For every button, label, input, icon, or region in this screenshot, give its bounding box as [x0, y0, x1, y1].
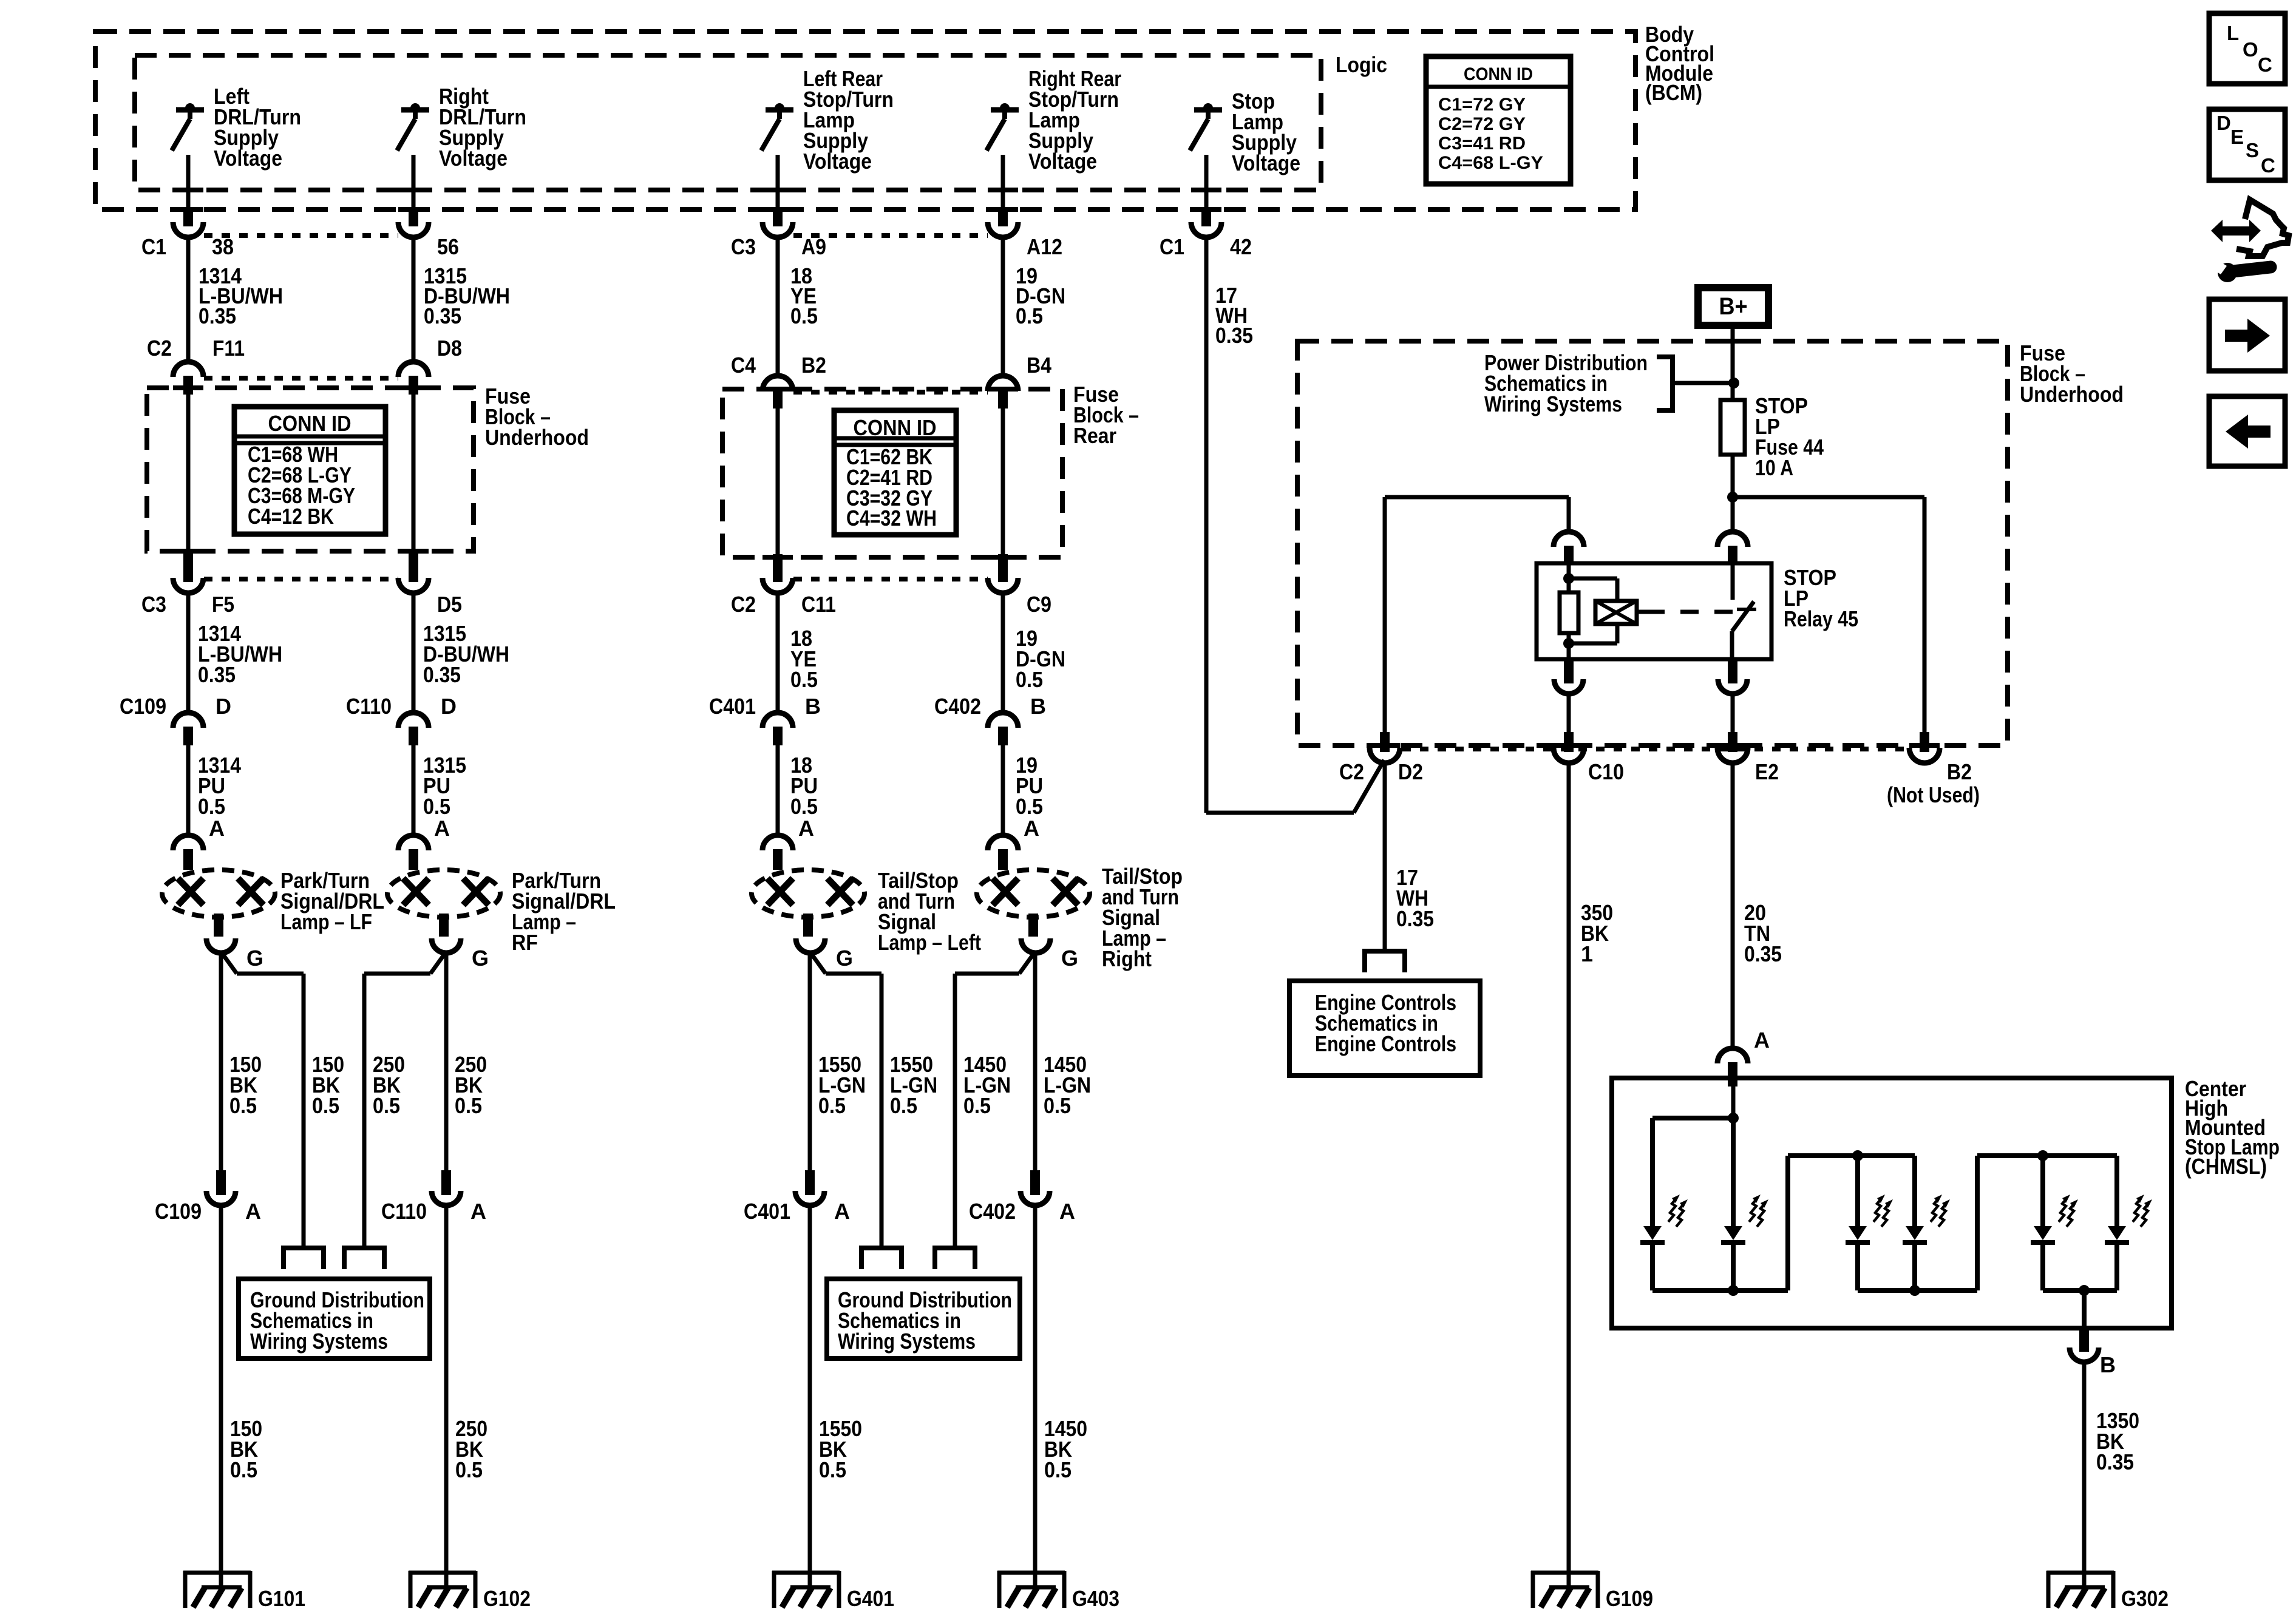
svg-text:Voltage: Voltage	[803, 149, 872, 174]
svg-text:C110: C110	[381, 1199, 427, 1224]
wire 19 D-GN 0.5 (lower)	[1001, 593, 1005, 714]
wire connector row dotted	[1402, 747, 1908, 751]
module box Fuse Block - Underhood (left)	[147, 388, 474, 551]
svg-text:0.35: 0.35	[1396, 906, 1434, 931]
off-page bracket ground distribution	[935, 1248, 975, 1269]
svg-text:C2: C2	[1339, 759, 1364, 784]
svg-text:D: D	[216, 694, 231, 719]
svg-text:A9: A9	[801, 234, 826, 259]
svg-text:(Not Used): (Not Used)	[1887, 782, 1980, 807]
svg-text:C109: C109	[155, 1199, 202, 1224]
svg-text:Engine Controls: Engine Controls	[1315, 1031, 1456, 1056]
wire lamp ground leg straight	[1033, 952, 1038, 1171]
wire 1314 L-BU/WH 0.35 (lower)	[186, 593, 191, 714]
LED D4 branch	[1912, 1156, 1917, 1227]
connector C109 pin D	[173, 713, 203, 728]
svg-text:0.5: 0.5	[423, 794, 450, 819]
svg-text:A: A	[1754, 1028, 1770, 1053]
relay pin bottom right	[1728, 659, 1737, 683]
wire through fuse block right	[412, 393, 416, 552]
svg-text:B2: B2	[1947, 759, 1972, 784]
svg-text:B+: B+	[1719, 293, 1748, 320]
wire connector row2 dotted	[204, 376, 398, 381]
svg-text:G: G	[836, 946, 853, 971]
svg-text:G102: G102	[483, 1586, 531, 1611]
svg-text:C4=12 BK: C4=12 BK	[248, 504, 334, 529]
wire switch drop	[776, 155, 780, 209]
wire junction to D2 branch	[1385, 495, 1569, 500]
module box Fuse Block - Underhood (right)	[1297, 341, 2008, 745]
connector C4 pin B4	[988, 376, 1018, 391]
svg-text:0.5: 0.5	[229, 1093, 257, 1118]
fuse STOP LP Fuse 44 10 A	[1720, 400, 1745, 455]
wire 19 PU 0.5	[1001, 745, 1005, 836]
svg-text:C10: C10	[1588, 759, 1624, 784]
connector C1 pin 42	[1201, 209, 1211, 226]
svg-text:0.5: 0.5	[230, 1457, 257, 1482]
svg-text:0.35: 0.35	[423, 662, 461, 687]
svg-text:CONN ID: CONN ID	[854, 415, 937, 440]
connector C3 pin A9	[773, 209, 783, 226]
svg-text:Voltage: Voltage	[1232, 151, 1300, 175]
wire 1315 PU 0.5	[412, 745, 416, 836]
svg-text:C1=72 GY: C1=72 GY	[1438, 95, 1526, 115]
wire 1314 PU 0.5	[186, 745, 191, 836]
svg-text:Right: Right	[1102, 946, 1152, 971]
ground G109	[1531, 1571, 1598, 1575]
svg-text:0.5: 0.5	[790, 303, 818, 328]
table CONN ID (BCM)	[1426, 56, 1571, 184]
connector C2 pin C11	[773, 554, 783, 582]
svg-text:Wiring Systems: Wiring Systems	[838, 1329, 976, 1354]
svg-text:C109: C109	[120, 694, 166, 719]
svg-text:Wiring Systems: Wiring Systems	[1484, 392, 1622, 416]
svg-text:A: A	[209, 816, 225, 841]
table CONN ID (Fuse Block Underhood)	[234, 407, 385, 534]
svg-text:C2=72 GY: C2=72 GY	[1438, 114, 1526, 134]
connector pin C10	[1564, 732, 1574, 752]
connector C1 pin 56	[409, 209, 418, 226]
svg-text:0.5: 0.5	[1044, 1457, 1072, 1482]
svg-text:0.35: 0.35	[424, 303, 461, 328]
svg-text:Voltage: Voltage	[214, 146, 282, 171]
ground G401	[772, 1571, 840, 1575]
svg-text:A12: A12	[1027, 234, 1062, 259]
wire to ground	[1033, 1205, 1038, 1587]
wire 18 YE 0.5 (lower)	[776, 593, 780, 714]
svg-text:E: E	[2230, 126, 2244, 148]
wire junction to B2 branch	[1733, 495, 1924, 500]
ground G102	[409, 1571, 476, 1575]
svg-text:0.5: 0.5	[373, 1093, 400, 1118]
switch S3 (Left Rear Stop/Turn supply)	[766, 107, 793, 113]
wire 350 BK 1	[1567, 762, 1571, 1587]
wire lamp ground leg to ground distribution	[430, 952, 446, 974]
switch S1 (Left supply)	[176, 107, 204, 113]
power feed B+	[1698, 288, 1768, 325]
svg-text:0.5: 0.5	[818, 1093, 846, 1118]
wire bus 2	[1858, 1288, 1977, 1293]
reference box Ground Distribution (middle)	[827, 1279, 1020, 1358]
svg-text:10 A: 10 A	[1755, 455, 1793, 480]
wire switch drop	[1204, 155, 1209, 209]
svg-text:C9: C9	[1027, 592, 1051, 617]
svg-text:Voltage: Voltage	[1028, 149, 1097, 174]
off-page bracket engine controls	[1365, 951, 1405, 972]
svg-text:0.5: 0.5	[198, 794, 225, 819]
svg-text:0.5: 0.5	[455, 1093, 482, 1118]
icon arrow left	[2209, 396, 2285, 466]
svg-text:0.5: 0.5	[1016, 794, 1043, 819]
relay switch contact	[1731, 563, 1735, 600]
svg-text:C401: C401	[709, 694, 756, 719]
wire 17 WH 0.35 stop lamp supply	[1204, 237, 1209, 813]
svg-text:0.5: 0.5	[455, 1457, 483, 1482]
LED D1 branch	[1650, 1118, 1655, 1227]
connector C110 pin D	[398, 713, 429, 728]
LED D2 branch	[1731, 1118, 1736, 1227]
switch S4 (Right Rear Stop/Turn supply)	[991, 107, 1019, 113]
svg-text:B: B	[1030, 694, 1046, 719]
svg-text:C1: C1	[1160, 234, 1184, 259]
svg-text:Voltage: Voltage	[439, 146, 508, 171]
wire lamp ground leg to ground distribution	[1019, 952, 1035, 974]
svg-text:D: D	[2216, 112, 2231, 134]
module box Fuse Block - Rear	[722, 389, 1062, 557]
lamp Park/Turn Signal/DRL Lamp - RF	[387, 870, 500, 917]
svg-text:0.5: 0.5	[963, 1093, 991, 1118]
lamp Tail/Stop and Turn Signal Lamp - Left	[752, 870, 864, 917]
wire bus 3	[2043, 1288, 2117, 1293]
wire to ground	[444, 1205, 449, 1587]
svg-text:C11: C11	[801, 592, 836, 617]
connector C2 pin F11	[173, 362, 203, 377]
wire lamp ground leg straight	[808, 952, 812, 1171]
svg-text:B: B	[2100, 1352, 2116, 1377]
wire 1350 BK 0.35	[2082, 1362, 2087, 1587]
junction node	[1727, 492, 1738, 503]
svg-text:A: A	[1059, 1199, 1075, 1224]
svg-text:G: G	[1061, 946, 1078, 971]
svg-text:L: L	[2227, 22, 2239, 44]
wire 1315 D-BU/WH 0.35 (lower)	[412, 593, 416, 714]
connector C3 pin F5	[183, 552, 193, 582]
svg-text:B: B	[805, 694, 821, 719]
svg-text:0.35: 0.35	[2096, 1449, 2134, 1474]
lamp Park/Turn Signal/DRL Lamp - LF	[162, 870, 275, 917]
relay linkage dashed	[1646, 610, 1748, 614]
svg-text:Underhood: Underhood	[2020, 382, 2124, 407]
module box Body Control Module (BCM) outer	[95, 32, 1635, 209]
wire through fuse block left	[186, 393, 191, 552]
svg-text:0.5: 0.5	[819, 1457, 846, 1482]
svg-text:Lamp – LF: Lamp – LF	[280, 909, 372, 934]
svg-text:C1: C1	[141, 234, 166, 259]
svg-text:D2: D2	[1398, 759, 1423, 784]
wire 19 D-GN 0.5	[1001, 237, 1005, 377]
connector pin G	[796, 938, 825, 953]
connector pin B2 (Not Used)	[1920, 732, 1929, 752]
svg-text:S: S	[2246, 139, 2259, 161]
svg-text:0.35: 0.35	[199, 303, 236, 328]
lamp Tail/Stop and Turn Signal Lamp - Right	[977, 870, 1090, 917]
junction node	[1728, 378, 1739, 388]
svg-text:0.35: 0.35	[1215, 323, 1253, 348]
svg-text:C2: C2	[731, 592, 756, 617]
wire 18 PU 0.5	[776, 745, 780, 836]
wire lamp ground leg straight	[444, 952, 449, 1171]
ground G302	[2046, 1571, 2114, 1575]
wire bus 1	[1652, 1288, 1788, 1293]
wire CHMSL feed	[1731, 1086, 1736, 1118]
svg-text:C: C	[2258, 53, 2272, 76]
connector pin G	[206, 938, 236, 953]
svg-text:G: G	[246, 946, 263, 971]
svg-text:0.5: 0.5	[790, 667, 818, 692]
off-page bracket ground distribution	[344, 1248, 384, 1269]
svg-text:C3: C3	[141, 592, 166, 617]
wire switch drop	[1001, 155, 1005, 209]
wire tier 2b	[1977, 1153, 2117, 1158]
wire 17 WH 0.35 to engine controls	[1383, 762, 1387, 951]
svg-text:0.5: 0.5	[1016, 667, 1043, 692]
wire to relay switch pin	[1731, 497, 1735, 533]
relay coil winding box	[1569, 577, 1617, 581]
reference box Ground Distribution (left)	[239, 1279, 430, 1358]
connector C2 pin D2	[1380, 732, 1390, 752]
svg-text:A: A	[245, 1199, 261, 1224]
svg-text:F11: F11	[212, 336, 245, 361]
wire lamp ground leg to ground distribution	[221, 952, 237, 974]
icon wrench adjust (two-way arrow)	[2211, 220, 2223, 242]
connector C401 pin B	[763, 713, 793, 728]
wire connector row1 dotted	[204, 233, 398, 238]
module box BCM Logic inner	[135, 55, 1321, 190]
svg-text:B4: B4	[1027, 353, 1051, 378]
wire tier 2a	[1788, 1153, 1915, 1158]
table CONN ID (Fuse Block Rear)	[834, 410, 956, 535]
svg-text:Relay 45: Relay 45	[1784, 606, 1858, 631]
svg-text:0.5: 0.5	[790, 794, 818, 819]
connector C2 pin D8	[398, 362, 429, 377]
svg-text:Lamp – Left: Lamp – Left	[878, 930, 981, 955]
svg-text:C402: C402	[969, 1199, 1016, 1224]
reference box Engine Controls	[1289, 981, 1480, 1076]
connector C4 pin B2	[763, 376, 793, 391]
wire 20 TN 0.35	[1731, 762, 1735, 1049]
svg-text:Wiring Systems: Wiring Systems	[250, 1329, 388, 1354]
wire to relay coil pin	[1567, 497, 1571, 533]
svg-text:(BCM): (BCM)	[1645, 80, 1702, 105]
svg-text:0.35: 0.35	[1744, 941, 1782, 966]
wire 1314 L-BU/WH 0.35	[186, 237, 191, 363]
module box Center High Mounted Stop Lamp (CHMSL)	[1612, 1078, 2172, 1328]
switch S2 (Right supply)	[401, 107, 429, 113]
wire switch drop	[186, 155, 191, 209]
svg-text:G302: G302	[2121, 1586, 2169, 1611]
svg-text:F5: F5	[212, 592, 234, 617]
svg-text:42: 42	[1230, 234, 1252, 259]
connector pin G	[432, 938, 461, 953]
connector C3 pin A12	[998, 209, 1008, 226]
wire 18 YE 0.5	[776, 237, 780, 377]
wire CHMSL return	[2082, 1290, 2087, 1328]
switch S5 (Stop Lamp supply)	[1194, 107, 1222, 113]
svg-text:C: C	[2261, 154, 2275, 177]
icon arrow right	[2209, 299, 2285, 371]
icon DESC	[2209, 109, 2285, 180]
svg-text:A: A	[434, 816, 450, 841]
svg-text:Rear: Rear	[1073, 423, 1116, 448]
svg-text:C2: C2	[147, 336, 172, 361]
svg-text:CONN ID: CONN ID	[268, 411, 352, 436]
connector C402 pin B	[988, 713, 1018, 728]
wire lamp ground leg straight	[219, 952, 223, 1171]
svg-text:Logic: Logic	[1336, 52, 1387, 77]
LED D3 branch	[1855, 1156, 1860, 1227]
svg-text:CONN ID: CONN ID	[1464, 64, 1533, 84]
connector pin E2	[1728, 732, 1737, 752]
wire through rear fuse block	[776, 407, 780, 554]
svg-text:Underhood: Underhood	[485, 425, 589, 450]
svg-text:0.5: 0.5	[312, 1093, 339, 1118]
wire switch drop	[412, 155, 416, 209]
svg-text:A: A	[470, 1199, 486, 1224]
ground G101	[183, 1571, 251, 1575]
svg-text:G403: G403	[1072, 1586, 1119, 1611]
svg-text:1: 1	[1581, 941, 1593, 966]
connector C109 pin A	[216, 1170, 226, 1195]
svg-text:RF: RF	[512, 930, 538, 955]
wire B+ to fuse	[1731, 325, 1735, 400]
svg-text:O: O	[2243, 38, 2258, 61]
svg-text:G101: G101	[258, 1586, 305, 1611]
svg-text:A: A	[1024, 816, 1039, 841]
icon LOC	[2209, 13, 2285, 84]
svg-text:38: 38	[212, 234, 234, 259]
svg-text:C4=32 WH: C4=32 WH	[846, 506, 937, 531]
svg-text:C4=68 L-GY: C4=68 L-GY	[1438, 153, 1543, 173]
off-page bracket ground distribution	[284, 1248, 324, 1269]
svg-text:A: A	[834, 1199, 850, 1224]
connector C3 pin D5	[409, 552, 418, 582]
svg-text:G: G	[472, 946, 489, 971]
svg-text:E2: E2	[1755, 759, 1779, 784]
LED D5 branch	[2040, 1156, 2045, 1227]
svg-text:C401: C401	[744, 1199, 790, 1224]
svg-text:G401: G401	[847, 1586, 894, 1611]
connector C2 pin C9	[998, 554, 1008, 582]
svg-text:D: D	[441, 694, 457, 719]
svg-text:C3=41 RD: C3=41 RD	[1438, 134, 1526, 154]
wire lamp ground leg to ground distribution	[810, 952, 826, 974]
svg-text:B2: B2	[801, 353, 826, 378]
connector C402 pin A	[1030, 1170, 1040, 1195]
relay pin bottom left	[1564, 659, 1574, 683]
connector C401 pin A	[805, 1170, 815, 1195]
svg-text:C402: C402	[934, 694, 981, 719]
svg-text:56: 56	[437, 234, 459, 259]
wire fuse to junction	[1731, 455, 1735, 497]
wire to ground	[219, 1205, 223, 1587]
connector pin G	[1021, 938, 1050, 953]
svg-text:D8: D8	[437, 336, 462, 361]
icon wrench	[2218, 263, 2237, 282]
svg-text:C4: C4	[731, 353, 756, 378]
LED D6 branch	[2114, 1156, 2119, 1227]
svg-text:0.35: 0.35	[198, 662, 236, 687]
connector C110 pin A	[441, 1170, 451, 1195]
wire connector row3 dotted	[204, 577, 398, 581]
svg-text:C3: C3	[731, 234, 756, 259]
svg-text:0.5: 0.5	[890, 1093, 917, 1118]
svg-text:0.5: 0.5	[1044, 1093, 1071, 1118]
connector pin B (CHMSL)	[2079, 1328, 2089, 1352]
wire to ground	[808, 1205, 812, 1587]
svg-text:0.5: 0.5	[1016, 303, 1043, 328]
svg-text:G109: G109	[1606, 1586, 1653, 1611]
relay STOP LP Relay 45	[1554, 532, 1584, 547]
ground G403	[997, 1571, 1065, 1575]
svg-text:D5: D5	[437, 592, 462, 617]
off-page bracket ground distribution	[861, 1248, 902, 1269]
wire 1315 D-BU/WH 0.35	[412, 237, 416, 363]
svg-text:(CHMSL): (CHMSL)	[2185, 1154, 2267, 1179]
connector C1 pin 38	[183, 209, 193, 226]
svg-text:C110: C110	[346, 694, 392, 719]
relay coil resistor	[1567, 563, 1571, 592]
svg-text:A: A	[798, 816, 814, 841]
